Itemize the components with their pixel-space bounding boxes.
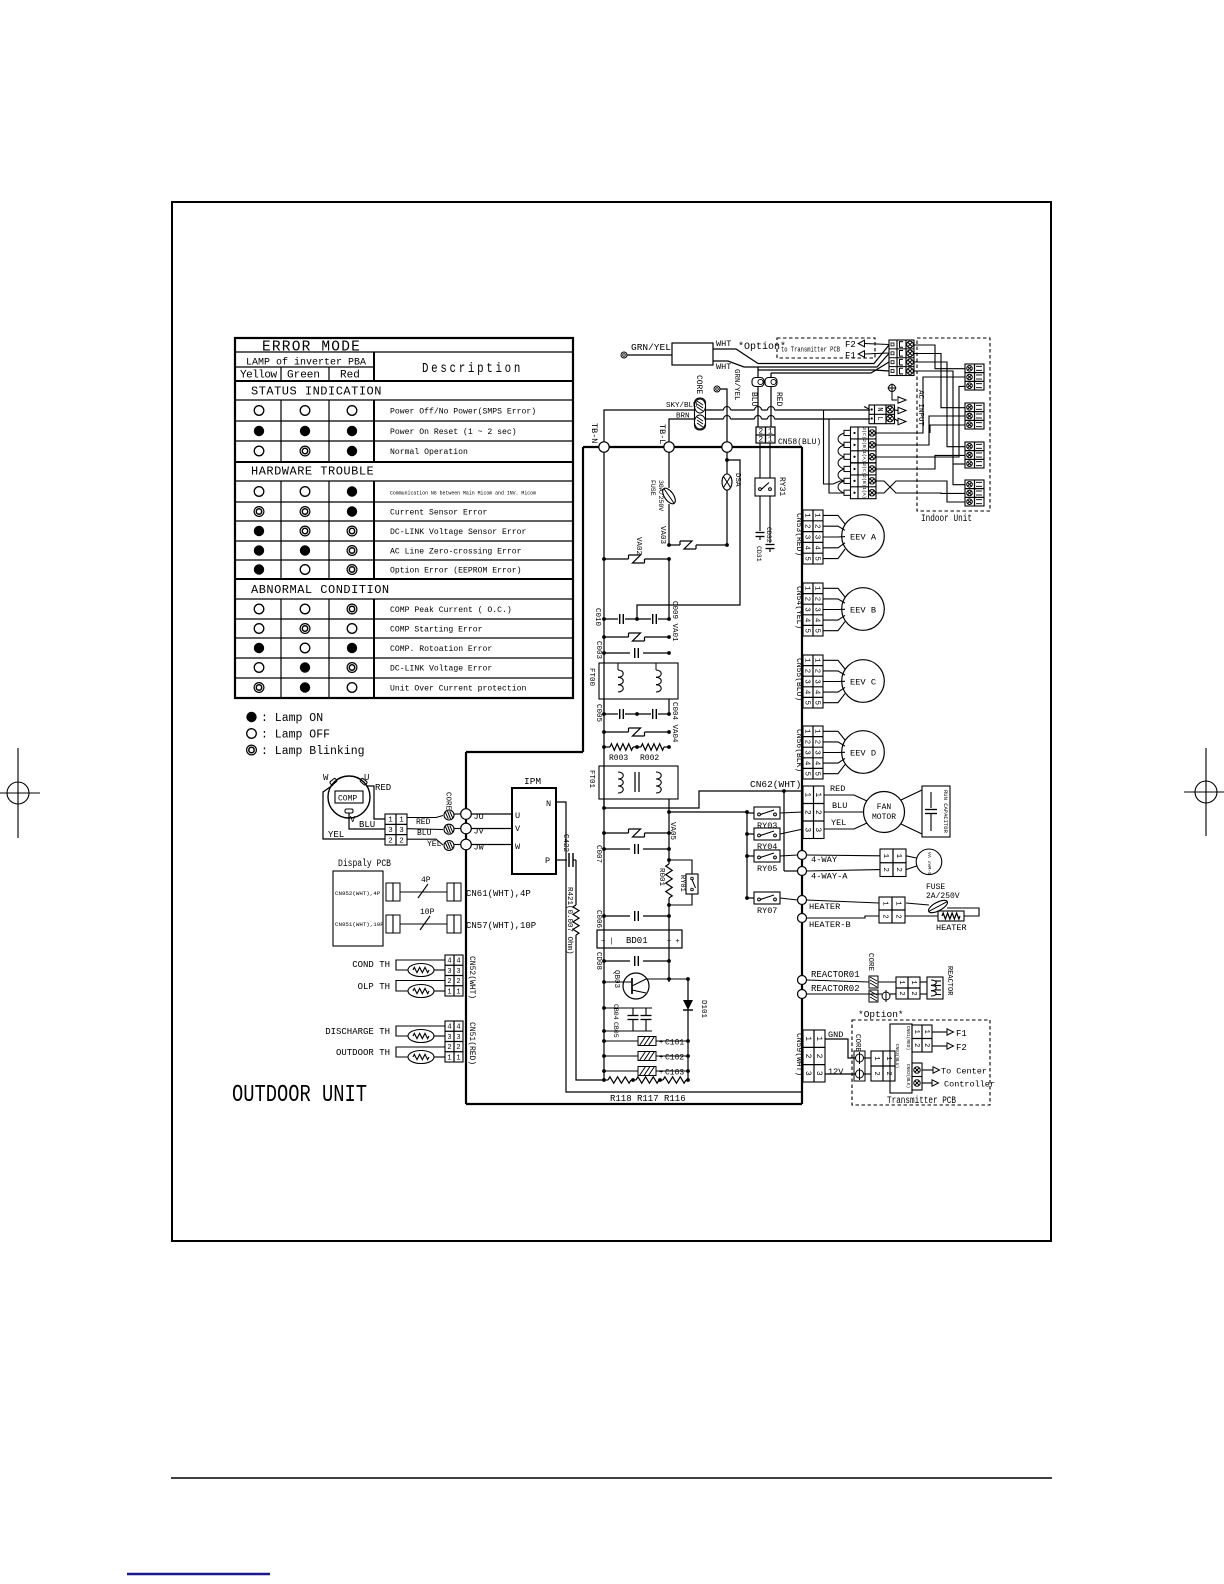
svg-text:4: 4 — [813, 761, 821, 766]
svg-text:to Transmitter PCB: to Transmitter PCB — [781, 347, 840, 355]
svg-text:REACTOR: REACTOR — [945, 966, 953, 996]
svg-text:2(B): 2(B) — [861, 475, 867, 487]
svg-text:FT00: FT00 — [587, 668, 595, 687]
svg-text:HEATER-B: HEATER-B — [809, 920, 851, 930]
svg-text:CN951(WHT),10P: CN951(WHT),10P — [335, 921, 384, 928]
svg-text:3: 3 — [813, 607, 821, 612]
svg-text:CN56(BLK): CN56(BLK) — [794, 729, 803, 772]
svg-text:CN01(RED): CN01(RED) — [905, 1026, 911, 1050]
svg-text:30A/250V: 30A/250V — [657, 480, 664, 511]
svg-text:Dispaly PCB: Dispaly PCB — [338, 858, 391, 870]
svg-text:ERROR MODE: ERROR MODE — [262, 340, 361, 356]
svg-text:3: 3 — [447, 1034, 451, 1042]
svg-text:3: 3 — [813, 679, 821, 684]
svg-text:CN03(BLU): CN03(BLU) — [894, 1044, 900, 1068]
svg-text:BLU: BLU — [832, 801, 847, 811]
svg-text:REACTOR02: REACTOR02 — [811, 984, 860, 994]
svg-text:COMP Starting Error: COMP Starting Error — [390, 625, 483, 635]
svg-text:2(B): 2(B) — [861, 439, 867, 451]
svg-text:2: 2 — [912, 1043, 920, 1047]
svg-text:3: 3 — [803, 1071, 812, 1076]
svg-text:CN51(RED): CN51(RED) — [467, 1022, 476, 1065]
svg-text:1: 1 — [912, 1030, 920, 1034]
svg-text:R003: R003 — [609, 754, 628, 763]
svg-text:CN52(WHT): CN52(WHT) — [467, 956, 476, 999]
svg-text:3: 3 — [456, 968, 460, 976]
svg-text:2: 2 — [894, 867, 902, 872]
svg-text:CN62(WHT): CN62(WHT) — [750, 779, 801, 790]
svg-text:EEV B: EEV B — [850, 606, 876, 616]
svg-text:1: 1 — [814, 1036, 823, 1041]
svg-text:Power Off/No Power(SMPS Error): Power Off/No Power(SMPS Error) — [390, 407, 536, 417]
svg-text:FUSE: FUSE — [649, 480, 656, 496]
svg-text:2: 2 — [872, 1071, 880, 1075]
svg-text:N: N — [546, 799, 551, 809]
svg-text:HEATER: HEATER — [809, 902, 840, 912]
svg-text:2: 2 — [399, 837, 404, 845]
svg-text:WHT: WHT — [716, 339, 731, 349]
svg-text:RED: RED — [774, 392, 783, 407]
svg-text:CORE: CORE — [444, 792, 452, 811]
svg-text:1: 1 — [388, 817, 393, 825]
svg-text:5: 5 — [813, 771, 821, 776]
svg-text:1: 1 — [447, 1054, 451, 1062]
svg-text:3: 3 — [813, 827, 822, 832]
svg-text:C009 VA01: C009 VA01 — [670, 601, 678, 642]
svg-text:CN53(RED): CN53(RED) — [794, 513, 803, 556]
svg-text:CB05: CB05 — [612, 1022, 619, 1038]
svg-text:+: + — [659, 1069, 663, 1077]
svg-text:4-WAY-A: 4-WAY-A — [811, 872, 848, 882]
svg-text:C007: C007 — [594, 845, 602, 863]
svg-text:1: 1 — [872, 1056, 880, 1060]
svg-text:HEATER: HEATER — [936, 923, 967, 933]
svg-text:2: 2 — [803, 810, 812, 815]
svg-text:COMP Peak Current ( O.C.): COMP Peak Current ( O.C.) — [390, 605, 512, 615]
svg-text:FT01: FT01 — [587, 770, 595, 789]
svg-text:3: 3 — [803, 827, 812, 832]
svg-text:1: 1 — [897, 980, 905, 984]
svg-text:2: 2 — [813, 810, 822, 815]
svg-text:To Center: To Center — [941, 1067, 987, 1077]
svg-text:3: 3 — [456, 1034, 460, 1042]
svg-text:3: 3 — [447, 968, 451, 976]
svg-text:VA02: VA02 — [634, 537, 642, 555]
svg-text:4: 4 — [813, 618, 821, 623]
svg-text:3: 3 — [399, 827, 404, 835]
svg-text:C005: C005 — [594, 704, 602, 723]
svg-text:1: 1 — [399, 817, 404, 825]
svg-text:2: 2 — [893, 914, 901, 918]
svg-text:MOTOR: MOTOR — [872, 813, 896, 822]
svg-text:GRN/YEL: GRN/YEL — [732, 369, 740, 401]
svg-text:3(C): 3(C) — [861, 463, 867, 475]
svg-text:3(C): 3(C) — [861, 427, 867, 439]
svg-text:C010: C010 — [593, 608, 601, 627]
svg-text:TB-L: TB-L — [657, 424, 667, 444]
svg-text:RUN CAPACITOR: RUN CAPACITOR — [942, 790, 949, 834]
svg-text:WHT: WHT — [716, 362, 731, 372]
svg-text:1: 1 — [894, 854, 902, 859]
svg-text:Yellow: Yellow — [240, 370, 278, 382]
svg-text:~ |: ~ | — [601, 938, 614, 946]
svg-text:V: V — [350, 815, 356, 825]
svg-text:4P: 4P — [421, 876, 431, 885]
svg-text:ABNORMAL CONDITION: ABNORMAL CONDITION — [251, 583, 390, 597]
svg-text:P: P — [545, 856, 550, 866]
svg-text:: Lamp Blinking: : Lamp Blinking — [261, 745, 365, 758]
svg-text:RY03: RY03 — [757, 821, 777, 831]
svg-text:2: 2 — [388, 837, 393, 845]
svg-text:10P: 10P — [420, 908, 435, 917]
svg-text:1: 1 — [803, 1036, 812, 1041]
svg-text:CORE: CORE — [853, 1034, 861, 1053]
svg-text:2: 2 — [447, 1044, 451, 1052]
svg-text:1: 1 — [447, 988, 451, 996]
svg-text:Power On Reset (1 ~ 2 sec): Power On Reset (1 ~ 2 sec) — [390, 427, 517, 437]
svg-text:Green: Green — [287, 370, 320, 382]
svg-text:F2: F2 — [845, 340, 856, 350]
svg-text:+: + — [659, 1039, 663, 1047]
svg-text:BD01: BD01 — [626, 936, 648, 946]
svg-text:RED: RED — [375, 783, 391, 793]
svg-text:12V: 12V — [828, 1067, 844, 1077]
svg-text:Communication NG between Main: Communication NG between Main Micom and … — [390, 490, 537, 497]
svg-text:1: 1 — [813, 586, 821, 591]
svg-text:V: V — [515, 824, 521, 834]
svg-text:1: 1 — [456, 1054, 460, 1062]
svg-text:~ +: ~ + — [667, 938, 680, 946]
svg-text:BLU: BLU — [417, 829, 432, 838]
svg-text:CN02(BLK): CN02(BLK) — [905, 1064, 911, 1088]
svg-text:4: 4 — [447, 958, 451, 966]
svg-text:2: 2 — [897, 991, 905, 995]
svg-text:REACTOR01: REACTOR01 — [811, 970, 860, 980]
svg-text:Red: Red — [340, 370, 360, 382]
svg-text:2: 2 — [813, 740, 821, 745]
svg-text:RED: RED — [416, 818, 431, 827]
svg-text:4-WAY VA: 4-WAY VA — [927, 852, 933, 875]
svg-text:2: 2 — [813, 597, 821, 602]
svg-text:5: 5 — [813, 700, 821, 705]
svg-text:1(A): 1(A) — [861, 451, 867, 463]
svg-text:2: 2 — [447, 978, 451, 986]
svg-text:RY01: RY01 — [678, 875, 686, 892]
svg-text:1: 1 — [813, 658, 821, 663]
svg-text:5: 5 — [813, 628, 821, 633]
svg-text:C101: C101 — [665, 1039, 684, 1048]
svg-text:COND TH: COND TH — [352, 960, 390, 970]
svg-text:L: L — [875, 416, 883, 420]
svg-text:4: 4 — [456, 1024, 460, 1032]
svg-text:1: 1 — [884, 1056, 892, 1060]
svg-text:4: 4 — [813, 690, 821, 695]
svg-text:: Lamp ON: : Lamp ON — [261, 712, 323, 725]
svg-text:HARDWARE TROUBLE: HARDWARE TROUBLE — [251, 465, 374, 479]
svg-text:*Option*: *Option* — [858, 1009, 904, 1020]
svg-text:Option Error (EEPROM Error): Option Error (EEPROM Error) — [390, 566, 522, 576]
svg-text:RY05: RY05 — [757, 864, 777, 874]
svg-text:R002: R002 — [640, 754, 659, 763]
svg-text:1: 1 — [813, 513, 821, 518]
svg-text:2A/250V: 2A/250V — [926, 892, 960, 901]
svg-text:C422: C422 — [561, 834, 569, 852]
svg-text:2: 2 — [813, 669, 821, 674]
svg-text:RY31: RY31 — [777, 477, 786, 496]
svg-text:2: 2 — [922, 1043, 930, 1047]
svg-text:STATUS INDICATION: STATUS INDICATION — [251, 385, 382, 399]
svg-text:3: 3 — [388, 827, 393, 835]
svg-text:QB03: QB03 — [612, 970, 620, 989]
svg-text:R118 R117 R116: R118 R117 R116 — [610, 1094, 686, 1104]
svg-text:C003: C003 — [594, 641, 602, 660]
svg-text:EEV D: EEV D — [850, 749, 876, 759]
svg-text:F2: F2 — [956, 1043, 967, 1053]
svg-text:2: 2 — [758, 436, 763, 445]
svg-text:4: 4 — [447, 1024, 451, 1032]
svg-text:VA03: VA03 — [658, 526, 666, 545]
svg-text:Description: Description — [422, 362, 523, 377]
svg-text:1: 1 — [922, 1030, 930, 1034]
svg-text:FAN: FAN — [877, 803, 892, 812]
svg-text:C102: C102 — [665, 1054, 684, 1063]
svg-text:2: 2 — [909, 991, 917, 995]
svg-text:2: 2 — [880, 914, 888, 918]
svg-text:GRN/YEL: GRN/YEL — [631, 342, 671, 353]
svg-text:RED: RED — [830, 784, 845, 794]
svg-text:OLP TH: OLP TH — [358, 982, 390, 992]
svg-text:2: 2 — [803, 1054, 812, 1059]
svg-text:: Lamp OFF: : Lamp OFF — [261, 729, 330, 742]
svg-text:DISCHARGE TH: DISCHARGE TH — [325, 1027, 390, 1037]
svg-text:CN54(YEL): CN54(YEL) — [794, 586, 803, 629]
svg-text:4: 4 — [456, 958, 460, 966]
svg-text:Current Sensor Error: Current Sensor Error — [390, 508, 487, 518]
svg-text:CD32: CD32 — [765, 527, 772, 543]
svg-text:IPM: IPM — [524, 776, 541, 787]
svg-text:1: 1 — [456, 988, 460, 996]
svg-text:1: 1 — [909, 980, 917, 984]
svg-text:1(A): 1(A) — [861, 487, 867, 499]
svg-text:C103: C103 — [665, 1069, 684, 1078]
svg-text:F1: F1 — [845, 351, 856, 361]
svg-text:W: W — [515, 842, 521, 852]
svg-text:EEV A: EEV A — [850, 533, 877, 543]
svg-text:COMP. Rotoation Error: COMP. Rotoation Error — [390, 644, 492, 654]
svg-text:DC-LINK Voltage Error: DC-LINK Voltage Error — [390, 664, 492, 674]
svg-text:2: 2 — [814, 1054, 823, 1059]
svg-text:OUTDOOR UNIT: OUTDOOR UNIT — [232, 1082, 367, 1109]
svg-text:5: 5 — [813, 556, 821, 561]
svg-text:W: W — [323, 773, 329, 783]
svg-text:1: 1 — [803, 792, 812, 797]
svg-text:F1: F1 — [956, 1029, 967, 1039]
svg-text:4-WAY: 4-WAY — [811, 855, 838, 865]
svg-text:Indoor Unit: Indoor Unit — [921, 513, 972, 525]
svg-text:CN952(WHT),4P: CN952(WHT),4P — [335, 890, 381, 897]
svg-text:3: 3 — [813, 750, 821, 755]
svg-text:4: 4 — [813, 546, 821, 551]
svg-text:SKY/BLU: SKY/BLU — [666, 402, 698, 410]
svg-text:C006: C006 — [594, 910, 602, 929]
svg-text:Normal Operation: Normal Operation — [390, 447, 468, 457]
svg-text:1: 1 — [893, 901, 901, 905]
svg-text:RY07: RY07 — [757, 906, 777, 916]
svg-text:2: 2 — [884, 1071, 892, 1075]
svg-text:*Option*: *Option* — [738, 341, 786, 353]
svg-text:COMP: COMP — [338, 795, 357, 804]
svg-text:D101: D101 — [699, 1000, 707, 1019]
svg-text:CN57(WHT),10P: CN57(WHT),10P — [466, 921, 536, 931]
svg-text:2: 2 — [813, 524, 821, 529]
svg-text:5: 5 — [803, 556, 811, 561]
svg-text:R001: R001 — [657, 868, 665, 887]
svg-text:DC-LINK Voltage Sensor Error: DC-LINK Voltage Sensor Error — [390, 527, 526, 537]
svg-text:YEL: YEL — [831, 818, 846, 828]
svg-text:1: 1 — [813, 792, 822, 797]
svg-text:CB04: CB04 — [612, 1004, 619, 1020]
svg-text:Unit Over Current protection: Unit Over Current protection — [390, 684, 526, 694]
svg-text:CORE: CORE — [866, 953, 874, 972]
svg-text:1: 1 — [813, 729, 821, 734]
svg-text:1: 1 — [881, 854, 889, 859]
svg-text:2: 2 — [456, 978, 460, 986]
svg-text:CN55(BLU): CN55(BLU) — [794, 658, 803, 701]
svg-text:VA05: VA05 — [668, 822, 676, 841]
svg-text:CN58(BLU): CN58(BLU) — [778, 438, 821, 447]
svg-text:N: N — [875, 407, 883, 411]
svg-text:1: 1 — [880, 901, 888, 905]
svg-text:BLU: BLU — [749, 392, 758, 407]
svg-text:LAMP of inverter PBA: LAMP of inverter PBA — [246, 357, 366, 369]
svg-text:3: 3 — [814, 1071, 823, 1076]
svg-text:2: 2 — [881, 867, 889, 872]
svg-text:CD08: CD08 — [594, 952, 602, 970]
svg-text:R421(0.007 Ohm): R421(0.007 Ohm) — [565, 887, 573, 955]
svg-text:AC Line Zero-crossing Error: AC Line Zero-crossing Error — [390, 547, 522, 557]
svg-text:OUTDOOR TH: OUTDOOR TH — [336, 1048, 390, 1058]
svg-text:CN59(WHT): CN59(WHT) — [794, 1033, 803, 1076]
svg-text:Controller: Controller — [944, 1080, 995, 1090]
svg-text:EEV C: EEV C — [850, 678, 876, 688]
svg-text:TB-N: TB-N — [589, 423, 599, 443]
svg-text:CORE: CORE — [694, 375, 703, 394]
svg-text:C004 VA04: C004 VA04 — [670, 702, 678, 743]
svg-text:U: U — [515, 811, 520, 821]
svg-text:CN61(WHT),4P: CN61(WHT),4P — [466, 889, 531, 899]
svg-text:3: 3 — [813, 535, 821, 540]
svg-text:Transmitter PCB: Transmitter PCB — [887, 1095, 956, 1107]
svg-text:2: 2 — [456, 1044, 460, 1052]
svg-text:U: U — [364, 773, 369, 783]
svg-text:+: + — [659, 1054, 663, 1062]
svg-text:CD31: CD31 — [755, 546, 762, 562]
svg-text:FUSE: FUSE — [926, 883, 945, 892]
